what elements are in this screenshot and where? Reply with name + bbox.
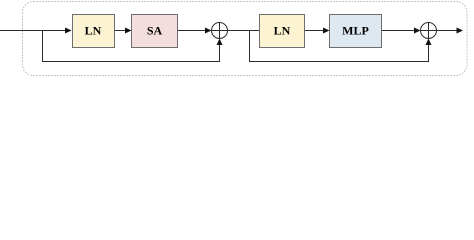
svg-text:LN: LN — [85, 24, 102, 38]
svg-text:LN: LN — [274, 24, 291, 38]
svg-text:MLP: MLP — [342, 24, 369, 38]
svg-text:SA: SA — [147, 24, 163, 38]
